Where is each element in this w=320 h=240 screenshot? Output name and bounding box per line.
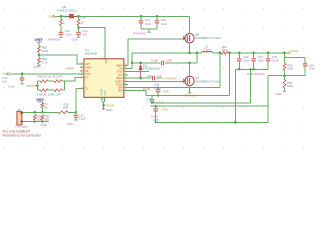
svg-text:560k: 560k bbox=[287, 67, 294, 71]
node junction R26/VCC wire bbox=[77, 26, 80, 29]
wire VFB bbox=[150, 76, 285, 107]
svg-text:10uF: 10uF bbox=[243, 58, 250, 62]
transistor Q7 bbox=[185, 76, 194, 85]
svg-text:C36: C36 bbox=[166, 59, 172, 63]
resistor R19 bbox=[38, 55, 40, 58]
node junction R25/C12 bbox=[75, 111, 78, 114]
svg-text:1uF: 1uF bbox=[2, 79, 7, 83]
svg-text:10uF: 10uF bbox=[161, 22, 168, 26]
diode D12 bbox=[139, 63, 142, 71]
pin name texts U4 bbox=[85, 58, 123, 92]
svg-text:thermistor is not connected: thermistor is not connected bbox=[3, 134, 41, 138]
regulator U11 body bbox=[69, 14, 75, 18]
node junction BVDD bbox=[36, 84, 39, 87]
svg-text:R26: R26 bbox=[80, 15, 86, 19]
wire 5V0 rail down to Q5 bbox=[189, 16, 191, 33]
capacitor C24 bbox=[267, 53, 269, 58]
capacitor C22 bbox=[238, 53, 240, 58]
node junction SRN tap bbox=[228, 52, 231, 55]
svg-text:GND: GND bbox=[33, 65, 40, 69]
capacitor C40 bbox=[151, 96, 153, 100]
node junction C22 top bbox=[238, 52, 241, 55]
capacitor C12 bbox=[75, 112, 77, 114]
resistor R21 bbox=[54, 80, 62, 83]
svg-text:BQ24650: BQ24650 bbox=[85, 52, 97, 56]
svg-text:TS: TS bbox=[85, 87, 88, 90]
node junction C17 bbox=[140, 15, 143, 18]
svg-text:GPWRGND: GPWRGND bbox=[164, 76, 178, 80]
node junction Q7 drain bbox=[188, 62, 191, 65]
resistor R18 bbox=[38, 42, 40, 46]
resistor R28 bbox=[37, 89, 40, 91]
wire PH rail bbox=[132, 52, 289, 54]
svg-text:GND: GND bbox=[104, 90, 107, 95]
resistor R7 bbox=[41, 102, 43, 103]
svg-text:R28: R28 bbox=[37, 92, 43, 96]
svg-text:+VREF: +VREF bbox=[65, 66, 75, 70]
node junction D12 top bbox=[139, 62, 142, 65]
ground GND (R19) bbox=[37, 65, 41, 67]
wire TS to IC bbox=[76, 88, 80, 112]
svg-text:GND: GND bbox=[163, 89, 170, 93]
wire R-network left bar bbox=[36, 81, 38, 90]
svg-text:PWRGND: PWRGND bbox=[48, 37, 62, 41]
capacitor C41 bbox=[155, 106, 157, 108]
svg-text:PWRGND: PWRGND bbox=[133, 32, 147, 36]
svg-text:R29: R29 bbox=[63, 15, 69, 19]
node junction Q5 source bbox=[188, 52, 191, 55]
svg-text:560k: 560k bbox=[287, 84, 294, 88]
resistor R25 bbox=[58, 111, 68, 114]
wire output gnd bus bbox=[235, 68, 268, 70]
decorative grid (not labelled further) bbox=[3, 8, 304, 148]
ground GND symbol (IC) bbox=[102, 108, 105, 110]
wire Q5 source down bbox=[189, 43, 191, 53]
svg-text:2k 1%: 2k 1% bbox=[43, 74, 51, 78]
svg-text:GND: GND bbox=[106, 108, 113, 112]
capacitor C25 bbox=[303, 64, 308, 66]
svg-text:BVDD: BVDD bbox=[27, 84, 36, 88]
svg-text:Thermistor: Thermistor bbox=[15, 125, 28, 129]
svg-text:SI3443BDV-T1-GE3: SI3443BDV-T1-GE3 bbox=[195, 36, 221, 40]
wire R-network right bar bbox=[63, 81, 65, 90]
node junction C24 top bbox=[267, 52, 270, 55]
inductor L2 bbox=[202, 51, 212, 53]
wire mid nest row bbox=[152, 69, 251, 103]
wire TS sense bbox=[22, 111, 58, 113]
svg-text:0.1uF: 0.1uF bbox=[156, 101, 163, 105]
svg-text:2.2uF: 2.2uF bbox=[65, 32, 72, 36]
svg-text:CRS08(SOD): CRS08(SOD) bbox=[143, 67, 160, 71]
node junction bus C23 bbox=[252, 68, 255, 71]
svg-text:C15: C15 bbox=[153, 118, 159, 122]
wire VCC to IC bbox=[79, 28, 106, 59]
node junction bus mid-nest bbox=[250, 68, 252, 70]
node junction VFB bbox=[283, 74, 286, 77]
resistor R29 bbox=[60, 16, 62, 19]
node junction MPPSET bbox=[38, 54, 41, 57]
resistor R20 bbox=[37, 80, 40, 82]
node junction R7/R23 bbox=[41, 111, 44, 114]
node junction boot riser bbox=[196, 52, 199, 55]
node junction C26 bbox=[156, 15, 159, 18]
wire PWRGND bottom bbox=[155, 69, 268, 122]
svg-text:0.1uF: 0.1uF bbox=[143, 87, 150, 91]
resistor R23 bbox=[41, 115, 44, 120]
resistor R26 (input) bbox=[78, 16, 80, 19]
svg-text:4.7uF: 4.7uF bbox=[154, 86, 161, 90]
wire thermistor lower bbox=[22, 121, 46, 123]
svg-text:0.1uF: 0.1uF bbox=[151, 59, 158, 63]
svg-text:VREF: VREF bbox=[36, 98, 44, 102]
pin GND stubs U4 bottom bbox=[101, 97, 103, 102]
node junction VFB cap bbox=[154, 105, 157, 108]
svg-text:100k: 100k bbox=[42, 49, 49, 53]
wire TXD bbox=[9, 73, 84, 75]
wire Q7 source bbox=[189, 86, 191, 93]
svg-text:TP9PWRGND: TP9PWRGND bbox=[246, 72, 265, 76]
wire PH pin riser bbox=[124, 53, 132, 69]
wire network to IC bbox=[64, 77, 80, 81]
svg-text:PGND: PGND bbox=[106, 103, 115, 107]
node junction SRP tap bbox=[219, 52, 222, 55]
svg-text:1uF: 1uF bbox=[82, 32, 87, 36]
node junction U11 out / R26 bbox=[77, 15, 80, 18]
node junction fb top bbox=[283, 52, 286, 55]
svg-text:10: 10 bbox=[80, 21, 84, 25]
resistor R26b bbox=[283, 63, 286, 70]
svg-text:GND: GND bbox=[72, 37, 79, 41]
svg-text:R20: R20 bbox=[37, 74, 43, 78]
wire Q5 gate (HIDRV) bbox=[128, 39, 183, 65]
svg-text:22pF: 22pF bbox=[309, 67, 316, 71]
node junction bus/bottom bbox=[234, 121, 237, 124]
pin stubs U4 right bbox=[124, 64, 128, 66]
wire Q7 drain riser bbox=[189, 63, 191, 76]
capacitor C23 bbox=[253, 53, 255, 58]
svg-text:5Vout: 5Vout bbox=[291, 49, 298, 53]
svg-text:GND: GND bbox=[40, 123, 47, 127]
capacitor C26 bbox=[156, 16, 158, 20]
wire 5V0 rail bbox=[55, 15, 190, 17]
resistor R30 bbox=[284, 76, 286, 80]
capacitor C38 bbox=[157, 88, 159, 90]
svg-text:10uF: 10uF bbox=[272, 58, 279, 62]
svg-text:1uF: 1uF bbox=[157, 74, 162, 78]
op-amp U4 body bbox=[84, 59, 124, 98]
node junction R17 bottom bbox=[34, 120, 37, 123]
pin stubs U4 left bbox=[80, 63, 84, 65]
wire REGN bbox=[124, 77, 163, 79]
node junction GND pins bbox=[102, 104, 105, 107]
wire LODRV to Q7 gate bbox=[124, 80, 183, 82]
node junction R17 top bbox=[34, 111, 37, 114]
svg-text:10uF: 10uF bbox=[257, 58, 264, 62]
node junction bus C22 bbox=[238, 68, 241, 71]
svg-text:10m: 10m bbox=[222, 48, 228, 52]
node junction D12 bottom bbox=[139, 77, 142, 80]
svg-text:0.1uF: 0.1uF bbox=[79, 117, 86, 121]
wire fb box bbox=[285, 53, 306, 76]
capacitor C34 bbox=[153, 76, 155, 81]
capacitor C31 bbox=[59, 32, 64, 34]
svg-text:500: 500 bbox=[63, 106, 68, 110]
wire SRP sense bbox=[124, 53, 220, 88]
svg-text:SRN: SRN bbox=[118, 90, 123, 93]
svg-text:GND: GND bbox=[8, 85, 15, 89]
svg-text:4.7k: 4.7k bbox=[42, 61, 48, 65]
svg-text:R_OPT: R_OPT bbox=[53, 74, 63, 78]
wire cap commons bbox=[141, 28, 157, 30]
svg-text:GND: GND bbox=[67, 122, 74, 126]
svg-text:GND: GND bbox=[162, 108, 169, 112]
svg-text:100R_OPT: 100R_OPT bbox=[48, 92, 62, 96]
wire boot (BTST-C36-PH) bbox=[132, 53, 197, 63]
capacitor C19 bbox=[21, 74, 23, 78]
svg-text:GND: GND bbox=[275, 92, 282, 96]
net flag 5Vout bbox=[289, 51, 291, 54]
node junction 5V0/R29 bbox=[60, 15, 63, 18]
capacitor C17 bbox=[140, 16, 142, 20]
transistor Q5 bbox=[185, 34, 194, 43]
wire MPPSET to pin bbox=[39, 55, 80, 64]
node junction PH/boot bbox=[131, 62, 134, 65]
capacitor C36 bbox=[162, 61, 164, 66]
node junction TXD/C19 bbox=[21, 73, 24, 76]
svg-text:2.2uH: 2.2uH bbox=[203, 48, 211, 52]
node junction C23 top bbox=[252, 52, 255, 55]
wire SRN sense bbox=[124, 53, 230, 96]
svg-text:SI3443BDV-T1-GE3: SI3443BDV-T1-GE3 bbox=[195, 80, 221, 84]
svg-text:C34: C34 bbox=[147, 74, 153, 78]
node junction R23 bottom bbox=[41, 120, 44, 123]
resistor R27 bbox=[221, 51, 227, 54]
svg-text:VCC: VCC bbox=[105, 58, 108, 63]
svg-text:10uF: 10uF bbox=[145, 22, 152, 26]
resistor R24 bbox=[54, 89, 62, 92]
svg-text:VREF: VREF bbox=[34, 38, 42, 42]
svg-text:ASM1117(5V0_): ASM1117(5V0_) bbox=[57, 9, 78, 13]
wire BTST pin3 bbox=[124, 71, 149, 73]
resistor R17 bbox=[33, 115, 36, 120]
svg-text:PG: PG bbox=[85, 76, 88, 79]
capacitor C13 bbox=[76, 32, 81, 34]
svg-text:C40: C40 bbox=[146, 97, 152, 101]
